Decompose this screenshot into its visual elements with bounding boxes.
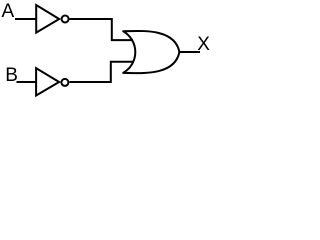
wire xyxy=(17,81,37,83)
wire xyxy=(70,19,133,40)
inverter U1 bubble xyxy=(62,16,69,23)
inverter U2 bubble xyxy=(61,79,68,86)
svg-text:A: A xyxy=(2,1,15,22)
or-gate U3 xyxy=(123,31,179,73)
wire xyxy=(179,51,200,53)
inverter U1 xyxy=(36,5,59,33)
inverter U2 xyxy=(36,68,59,95)
wire xyxy=(69,62,134,82)
wire xyxy=(15,18,36,20)
svg-text:B: B xyxy=(5,65,18,86)
svg-text:X: X xyxy=(197,34,210,55)
